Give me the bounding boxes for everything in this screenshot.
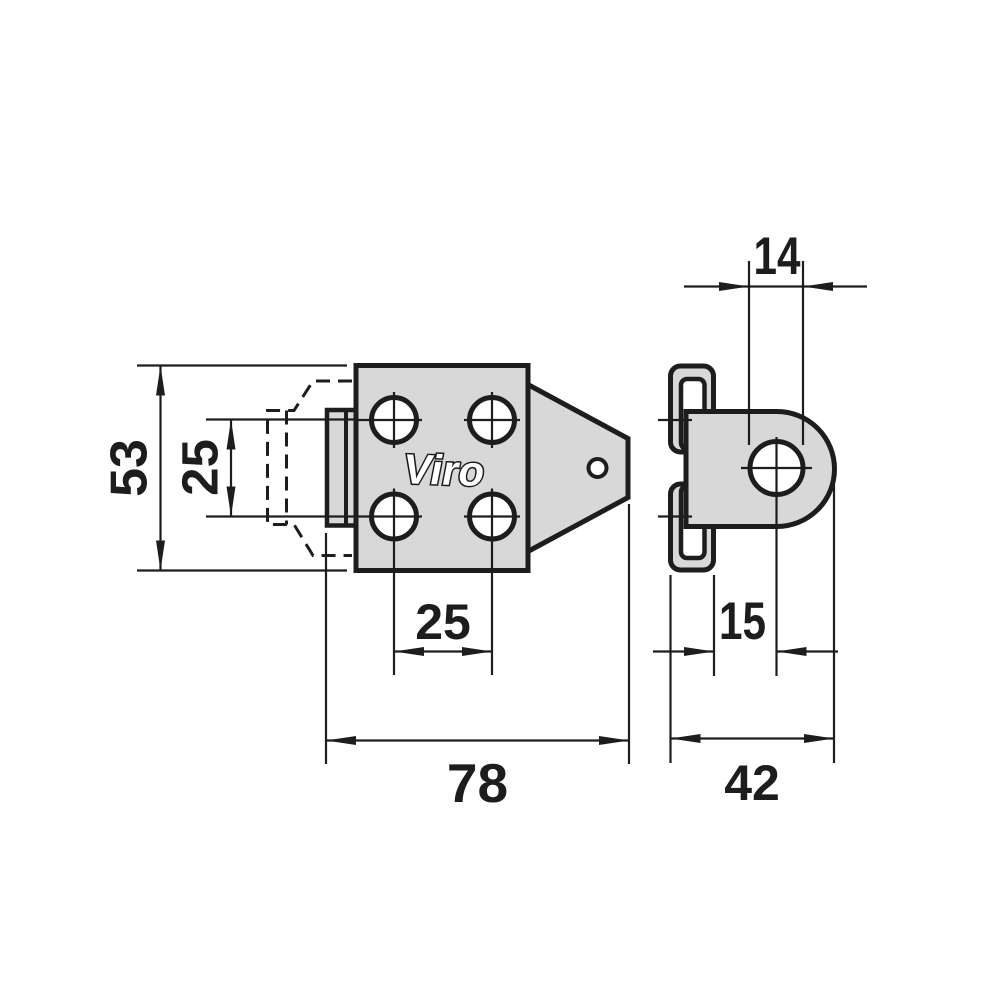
D plate (686, 412, 834, 527)
svg-text:Viro: Viro (399, 446, 489, 495)
svg-text:15: 15 (719, 592, 766, 651)
42 ext lines (669, 575, 671, 763)
hole top-right (464, 392, 520, 448)
Viro logo (399, 446, 489, 495)
14 arrows (outside, pointing in) (719, 282, 749, 291)
bottom clip (671, 484, 714, 570)
arrowheads side (671, 282, 835, 743)
left tab plate (327, 410, 358, 526)
15 arrows (outside, pointing in) (684, 647, 714, 656)
25h arrows (394, 647, 424, 656)
14 ext lines (748, 261, 750, 445)
53 dim line (159, 366, 161, 571)
svg-text:53: 53 (101, 439, 159, 497)
main body square (356, 366, 528, 571)
25v extension lines (206, 418, 358, 420)
svg-text:42: 42 (724, 755, 780, 811)
hole bottom-right (464, 489, 520, 545)
14 dim line (684, 285, 867, 287)
top clip (671, 366, 714, 452)
right triangular flag (526, 384, 628, 553)
flag hole (589, 459, 607, 477)
53 arrows (156, 366, 165, 396)
hidden dashed outline (268, 381, 353, 556)
side hole (750, 442, 803, 495)
78 dim line (326, 739, 629, 741)
53 extension lines (137, 364, 347, 366)
42 arrows (671, 734, 701, 743)
svg-text:78: 78 (447, 752, 508, 814)
tick lines (658, 419, 692, 421)
crosshair (741, 467, 812, 469)
42 dim line (671, 737, 835, 739)
15 dim (653, 650, 714, 652)
hole top-left (358, 392, 422, 448)
78 ext lines (325, 533, 327, 764)
25h dim line (394, 650, 492, 652)
25v dim line (230, 420, 232, 517)
side thin lines (653, 261, 867, 763)
25h ext lines (393, 544, 395, 675)
78 arrows (326, 736, 356, 745)
arrowheads front (156, 366, 629, 746)
svg-text:25: 25 (172, 439, 229, 496)
25v arrows (227, 420, 236, 450)
hole bottom-left (358, 489, 422, 545)
svg-text:14: 14 (754, 227, 801, 286)
svg-text:25: 25 (415, 594, 471, 650)
